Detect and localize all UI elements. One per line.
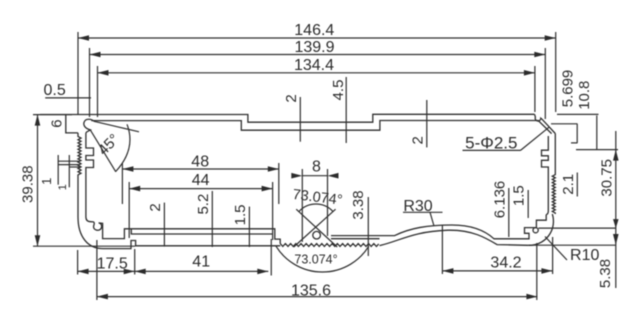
svg-text:34.2: 34.2 — [490, 254, 521, 271]
svg-text:41: 41 — [192, 254, 210, 271]
svg-text:2: 2 — [283, 94, 300, 102]
svg-text:48: 48 — [191, 153, 209, 170]
svg-text:44: 44 — [192, 172, 210, 189]
svg-text:4.5: 4.5 — [330, 80, 347, 101]
svg-text:30.75: 30.75 — [598, 159, 615, 197]
svg-text:1.5: 1.5 — [511, 185, 528, 206]
svg-text:2: 2 — [409, 136, 426, 144]
svg-text:73.074°: 73.074° — [294, 253, 337, 267]
svg-text:0.5: 0.5 — [43, 82, 65, 99]
svg-text:73.074°: 73.074° — [292, 187, 344, 209]
svg-text:1.5: 1.5 — [232, 204, 249, 225]
svg-text:45°: 45° — [95, 131, 123, 159]
svg-text:3.38: 3.38 — [350, 190, 367, 219]
svg-text:17.5: 17.5 — [97, 256, 128, 273]
svg-text:5.2: 5.2 — [195, 194, 212, 215]
svg-text:10.8: 10.8 — [576, 81, 593, 110]
svg-text:5.38: 5.38 — [597, 259, 614, 288]
svg-text:2: 2 — [147, 203, 164, 211]
svg-text:R30: R30 — [403, 198, 432, 215]
svg-text:146.4: 146.4 — [294, 22, 334, 39]
svg-text:134.4: 134.4 — [294, 57, 334, 74]
svg-text:R10: R10 — [570, 247, 599, 264]
svg-text:5.699: 5.699 — [560, 70, 577, 108]
svg-text:6.136: 6.136 — [491, 181, 508, 219]
svg-text:39.38: 39.38 — [20, 165, 37, 203]
svg-text:5-Φ2.5: 5-Φ2.5 — [465, 134, 517, 153]
svg-text:1: 1 — [57, 184, 69, 190]
svg-text:6: 6 — [49, 119, 66, 127]
svg-text:139.9: 139.9 — [294, 39, 334, 56]
svg-text:2.1: 2.1 — [560, 174, 577, 195]
svg-text:1: 1 — [39, 178, 54, 185]
svg-text:8: 8 — [312, 159, 321, 176]
svg-text:135.6: 135.6 — [291, 283, 331, 300]
